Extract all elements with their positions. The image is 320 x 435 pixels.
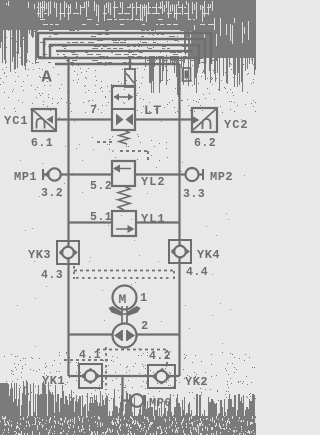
svg-text:6.2: 6.2 [194, 137, 216, 150]
svg-text:A: A [42, 69, 53, 88]
svg-text:5.1: 5.1 [90, 211, 112, 224]
svg-text:5.2: 5.2 [90, 180, 112, 193]
svg-text:YC2: YC2 [224, 118, 249, 132]
svg-text:LT: LT [144, 103, 163, 118]
svg-text:3.3: 3.3 [183, 188, 205, 201]
svg-text:YL2: YL2 [141, 175, 166, 189]
svg-text:6.1: 6.1 [31, 137, 53, 150]
svg-text:YK4: YK4 [197, 248, 220, 262]
svg-text:YK3: YK3 [28, 248, 51, 262]
svg-text:1: 1 [140, 291, 147, 305]
svg-text:MP1: MP1 [14, 170, 37, 184]
svg-text:YK1: YK1 [42, 374, 65, 388]
svg-text:4.4: 4.4 [186, 266, 208, 279]
svg-text:M: M [119, 292, 127, 307]
svg-text:4.3: 4.3 [41, 269, 63, 282]
svg-text:MP0: MP0 [149, 396, 172, 410]
svg-text:YL1: YL1 [141, 212, 166, 226]
svg-text:2: 2 [141, 319, 148, 333]
svg-text:3.2: 3.2 [41, 187, 63, 200]
svg-text:MP2: MP2 [210, 170, 233, 184]
svg-text:YC1: YC1 [4, 114, 29, 128]
svg-text:YK2: YK2 [185, 375, 208, 389]
svg-text:7: 7 [90, 103, 97, 117]
